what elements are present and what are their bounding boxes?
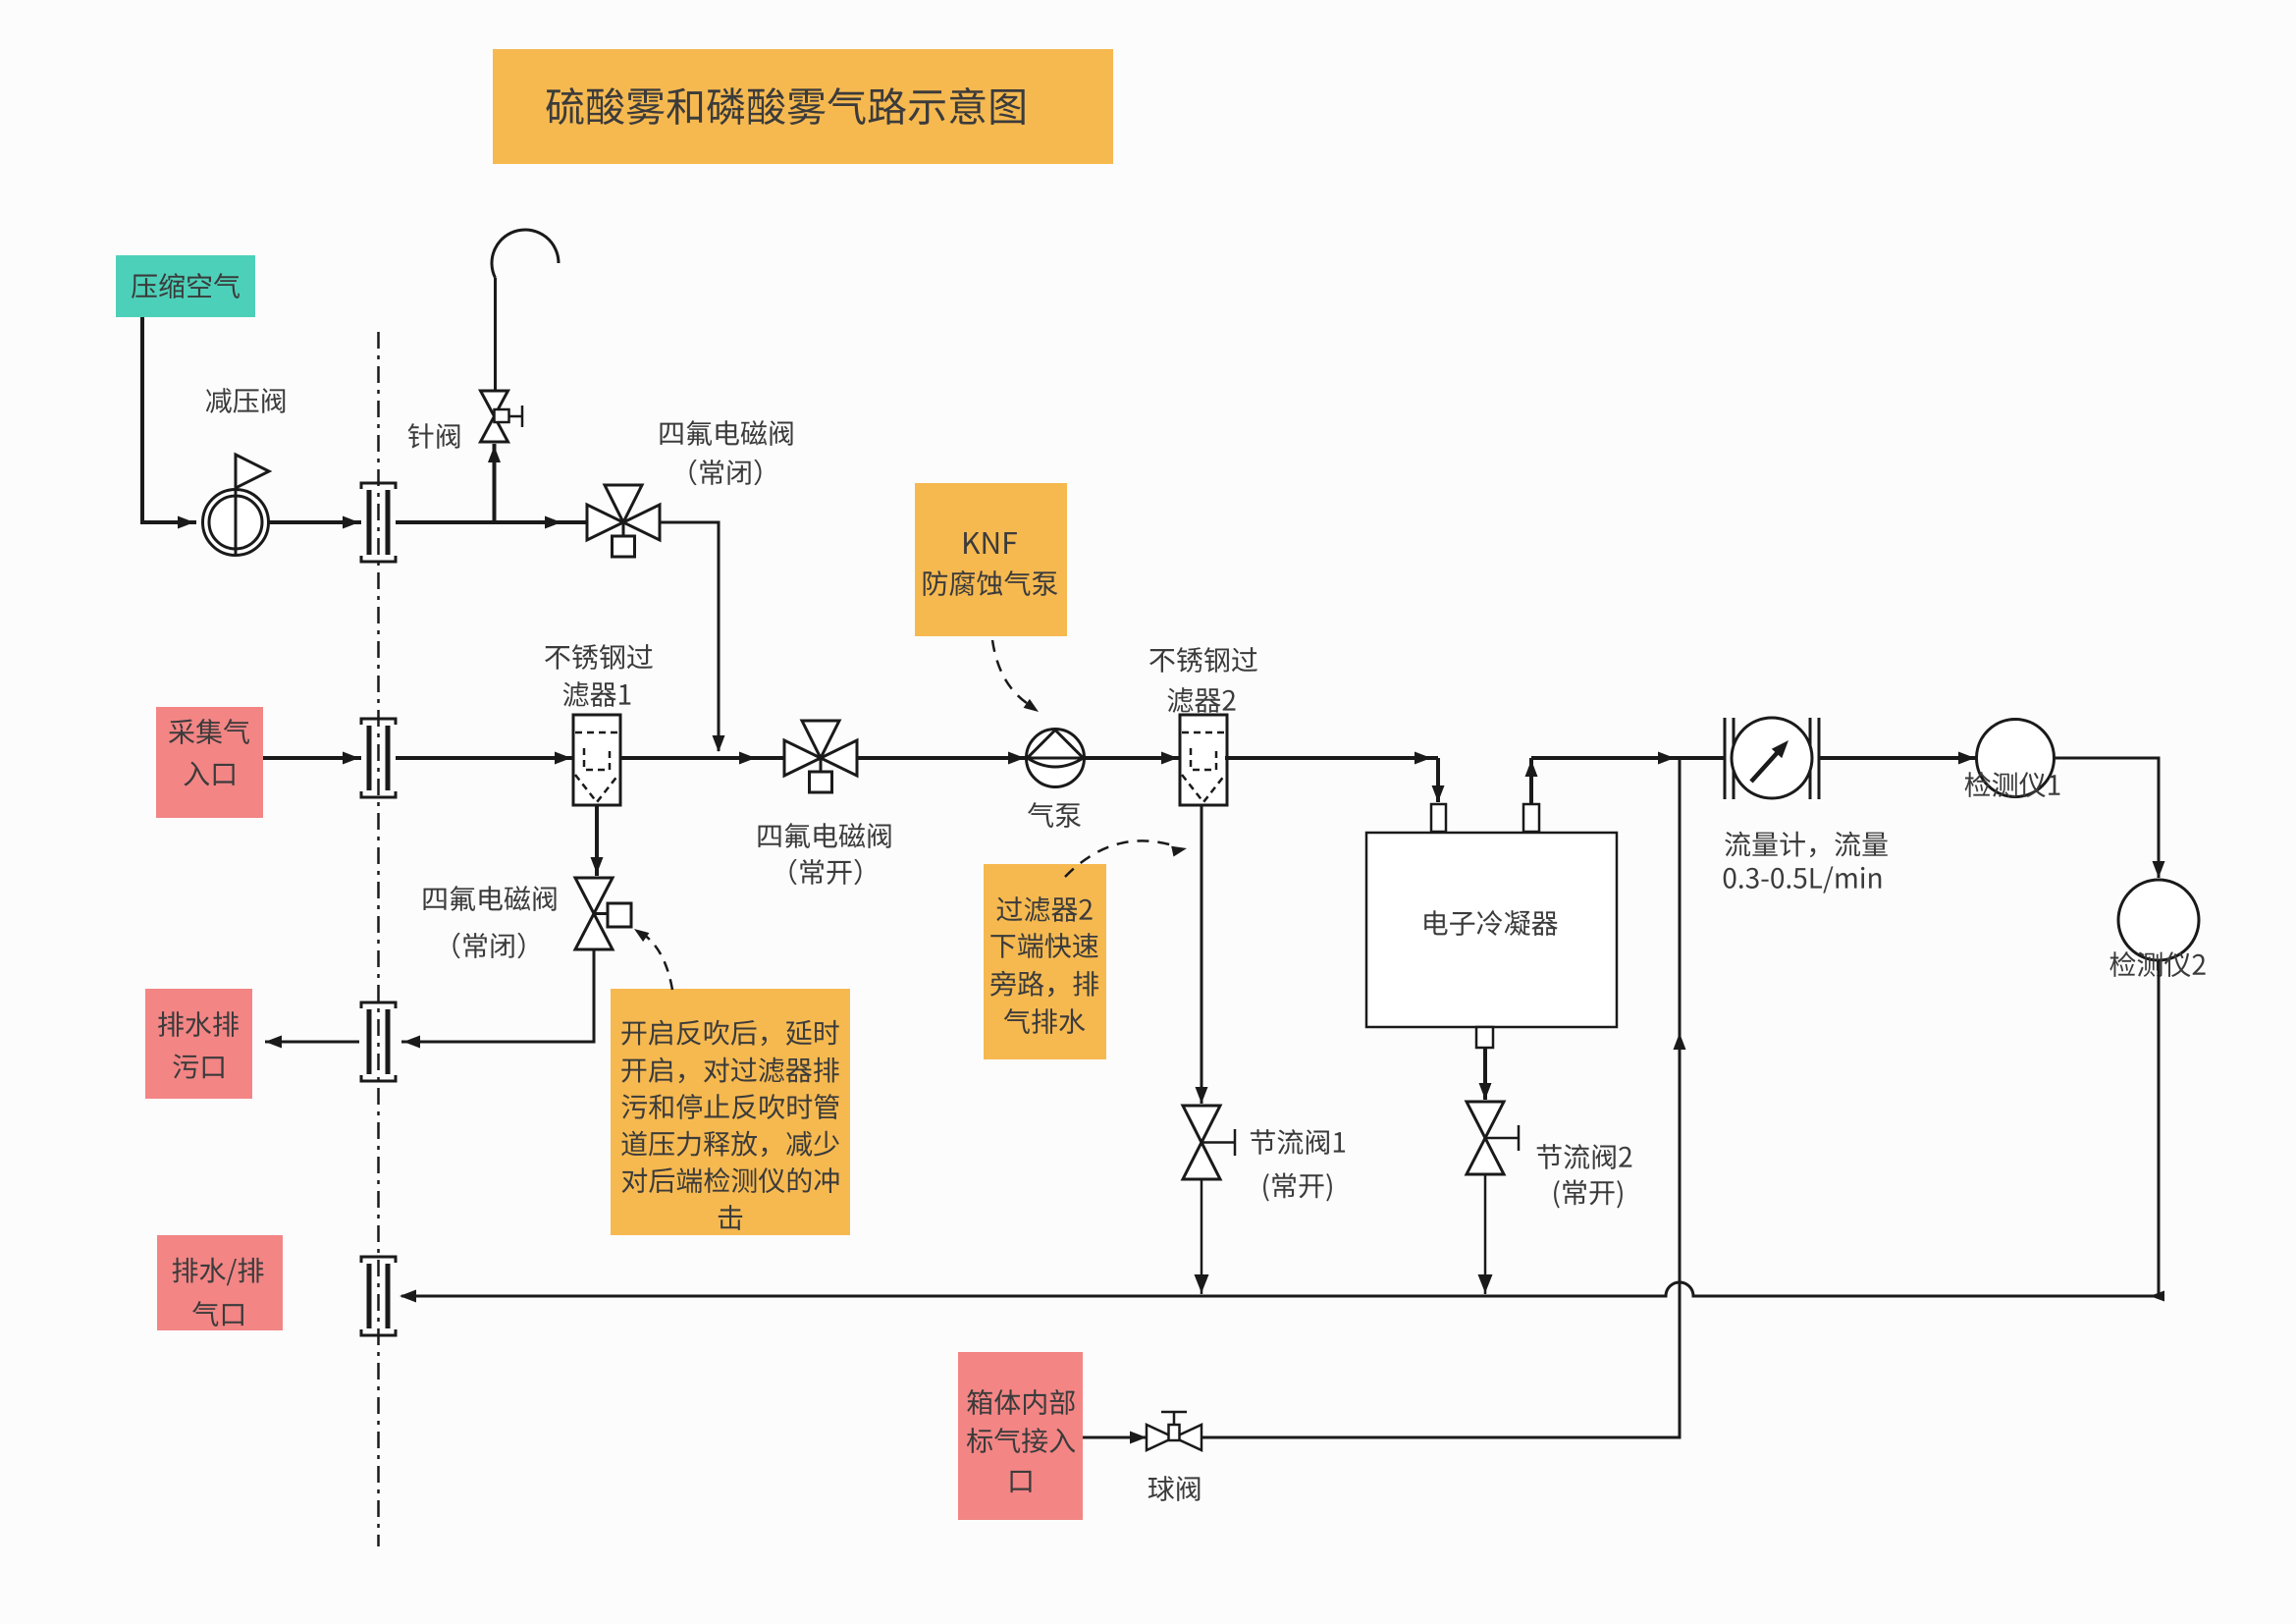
flange F1 on boundary: [361, 483, 396, 562]
wire flange F1 to needle-valve tee and solenoid V1: [396, 516, 587, 529]
solenoid valve V3 四氟电磁阀(常闭) drain: [575, 878, 631, 949]
electronic condenser 电子冷凝器 box: [1366, 833, 1617, 1027]
wire flowmeter to detector1: [1819, 752, 1977, 765]
throttle valve 节流阀1: [1183, 1106, 1235, 1179]
wire detector2 down to drain line: [2150, 960, 2164, 1302]
wire needle valve vent hook: [492, 230, 559, 391]
label 球阀: [1148, 1476, 1201, 1501]
wire filter2 to throttle1: [1196, 805, 1208, 1104]
KNF note box: [915, 483, 1067, 636]
throttle valve 节流阀2: [1467, 1102, 1519, 1174]
label 气泵: [1028, 802, 1081, 828]
flange F3 on boundary: [361, 1002, 396, 1081]
enclosure boundary dash-dot line: [377, 332, 380, 1546]
label 节流阀2 (常开): [1537, 1144, 1632, 1208]
label 流量计，流量 0.3-0.5L/min: [1724, 832, 1888, 893]
wire box to ball valve: [1083, 1432, 1147, 1444]
solenoid valve V2 四氟电磁阀(常开): [784, 721, 857, 792]
label 检测仪1: [1965, 772, 2060, 797]
filter 不锈钢过滤器1: [573, 715, 620, 805]
node 排水/排气口 box: [157, 1235, 283, 1330]
condenser inlet port: [1431, 804, 1446, 832]
node 采集气入口 box: [156, 707, 263, 818]
wire flange F3 to drain port: [265, 1036, 359, 1049]
wire throttle1 to drain: [1195, 1179, 1209, 1294]
detector 检测仪2: [2118, 880, 2199, 960]
pressure reducing valve label 减压阀: [206, 388, 285, 413]
wire flange F2 to filter1: [396, 752, 573, 765]
wire compressed air down+right: [142, 317, 196, 529]
wire tee up to needle valve: [488, 444, 501, 522]
condenser outlet port: [1523, 804, 1539, 832]
detector 检测仪1: [1977, 720, 2055, 797]
wire condenser outlet up to line: [1525, 758, 1538, 804]
solenoid valve V1 四氟电磁阀(常闭) top: [587, 485, 660, 557]
wire inlet to flange F2: [263, 752, 361, 765]
gas pump 气泵: [1027, 730, 1085, 787]
note box 开启反吹后: [611, 989, 850, 1235]
wire condenser drain to throttle2: [1479, 1048, 1492, 1100]
wire filter1 to solenoid V3: [591, 805, 604, 876]
note box 过滤器2下端快速旁路: [984, 864, 1106, 1059]
node 箱体内部标气接入口 box: [958, 1352, 1083, 1520]
dashed leader KNF to pump: [992, 640, 1039, 712]
title box 硫酸雾和磷酸雾气路示意图: [493, 49, 1113, 164]
node 排水排污口 box: [145, 989, 252, 1099]
wire filter1 to solenoid V2: [620, 752, 784, 765]
dashed leader note to filter2 drain: [1065, 840, 1187, 877]
flange F4 on boundary: [361, 1257, 396, 1335]
wire condenser to flowmeter: [1531, 752, 1725, 765]
label 不锈钢过滤器2: [1149, 647, 1257, 713]
needle valve 针阀: [481, 391, 523, 442]
wire ball valve to riser: [1201, 758, 1686, 1437]
wire V2 to pump: [857, 752, 1027, 765]
wire V1 to main line junction: [660, 522, 725, 752]
label 检测仪2: [2109, 951, 2205, 977]
wire throttle2 to drain: [1478, 1174, 1493, 1294]
wire filter2 to condenser inlet: [1225, 752, 1445, 803]
label 四氟电磁阀(常闭) drain: [424, 886, 557, 958]
drain line with hop over standard-gas line: [400, 1282, 2159, 1303]
flange F2 on boundary: [361, 719, 396, 797]
needle valve label 针阀: [408, 423, 460, 449]
node 压缩空气 source box: [116, 255, 255, 317]
condenser bottom drain port: [1476, 1027, 1493, 1048]
dashed leader note to solenoid V3: [634, 929, 672, 990]
flow meter 流量计: [1725, 718, 1819, 799]
wire pump to filter2: [1084, 752, 1180, 765]
label 四氟电磁阀(常闭) top: [661, 420, 793, 485]
label 四氟电磁阀(常开): [759, 823, 891, 885]
pressure reducing valve: [203, 455, 270, 556]
wire reducing valve to flange: [269, 516, 362, 529]
label 节流阀1 (常开): [1251, 1129, 1345, 1201]
wire solenoid V3 drain to flange F3: [401, 949, 594, 1049]
wire detector1 to detector2: [2055, 758, 2165, 878]
ball valve 球阀: [1147, 1412, 1201, 1450]
label 不锈钢过滤器1: [545, 644, 653, 707]
filter 不锈钢过滤器2: [1180, 715, 1227, 805]
